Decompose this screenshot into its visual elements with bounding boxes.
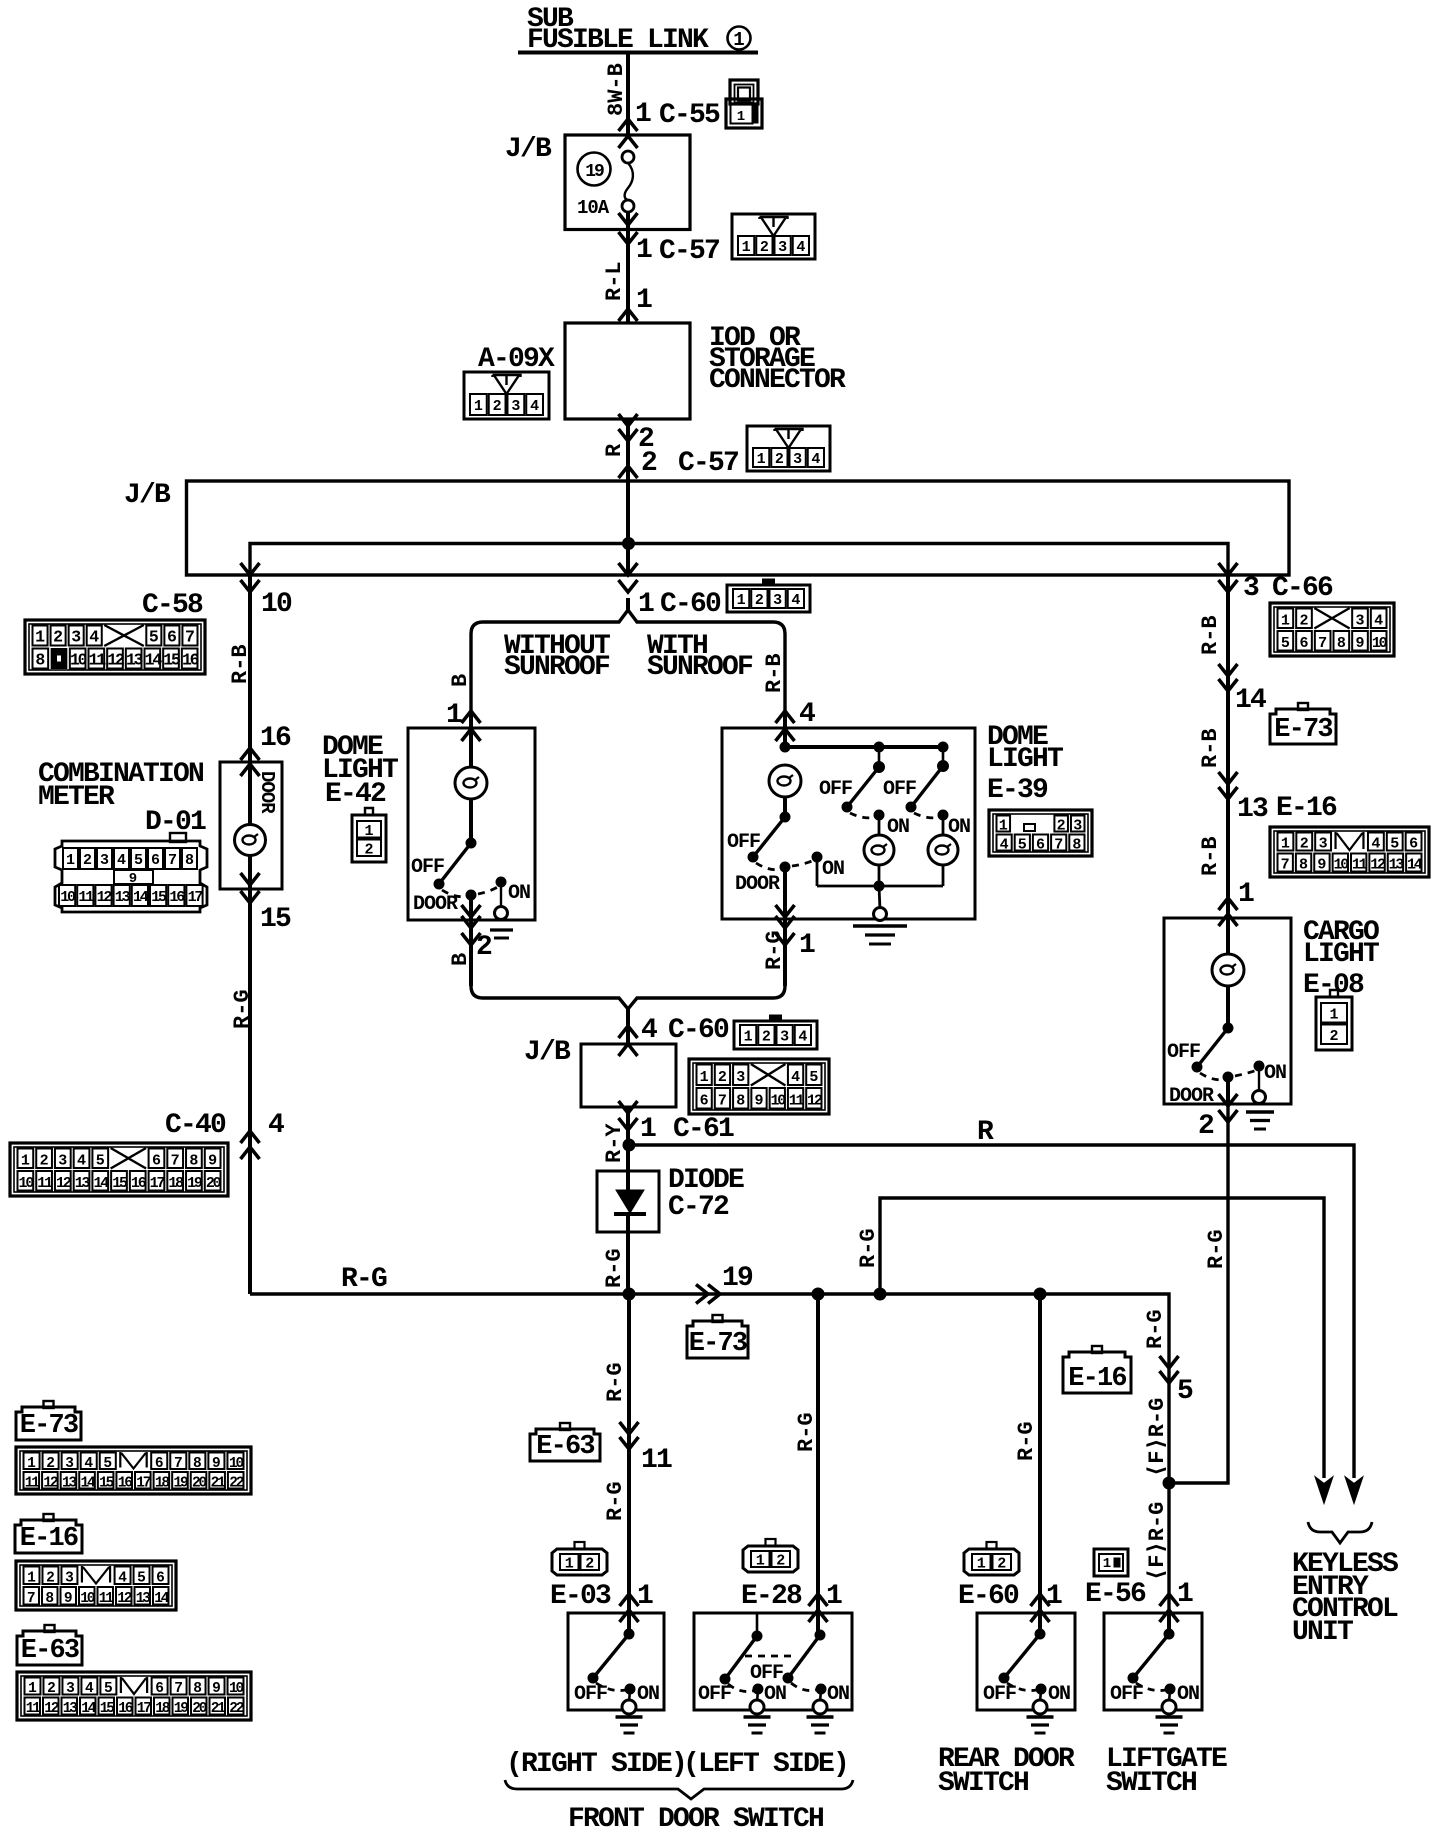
wire 8W-B from fusible link to J/B fuse [626, 54, 630, 135]
svg-text:4: 4 [791, 1069, 800, 1086]
cargo light lamp [1226, 918, 1230, 954]
svg-text:16: 16 [182, 651, 199, 670]
svg-text:2: 2 [47, 1681, 56, 1697]
IOD or storage connector box [619, 309, 638, 321]
svg-text:R: R [977, 1117, 994, 1148]
connector E-73 table [16, 1447, 251, 1494]
J/B internal bus wire [626, 481, 630, 544]
dome light E-39 door wire to pin 1 [783, 867, 787, 920]
svg-text:6: 6 [155, 1456, 164, 1472]
svg-text:C-60: C-60 [660, 589, 721, 620]
connector C-60 icon (lower) [734, 1021, 817, 1049]
svg-text:11: 11 [641, 1445, 672, 1476]
svg-text:8: 8 [193, 1456, 202, 1472]
svg-text:14: 14 [1407, 857, 1423, 874]
svg-text:5: 5 [149, 628, 159, 647]
svg-text:14: 14 [1235, 685, 1266, 716]
svg-text:6: 6 [167, 628, 177, 647]
door lamp in combination meter [248, 762, 252, 824]
front door switch LH E-28 box [694, 1613, 852, 1710]
svg-text:4: 4 [1000, 837, 1009, 854]
svg-text:E-60: E-60 [958, 1581, 1019, 1612]
svg-text:2: 2 [53, 628, 63, 647]
svg-text:7: 7 [1318, 635, 1327, 652]
svg-text:5: 5 [104, 1681, 113, 1697]
wire R-L from J/B fuse to IOD connector [626, 230, 630, 324]
wire R-G rail to door switches [250, 1294, 1169, 1613]
svg-text:6: 6 [700, 1092, 709, 1109]
svg-text:⟨F⟩R-G: ⟨F⟩R-G [1145, 1502, 1170, 1581]
svg-text:C-40: C-40 [165, 1110, 226, 1141]
svg-text:C-55: C-55 [659, 100, 720, 131]
svg-text:1: 1 [744, 1029, 753, 1046]
svg-text:1: 1 [733, 29, 744, 51]
dome light E-42 switch ground [500, 882, 502, 907]
dome light E-39 box [722, 728, 975, 919]
svg-text:1: 1 [977, 1556, 986, 1573]
connector C-60 pin 1 label [619, 580, 638, 592]
svg-text:5: 5 [134, 852, 143, 869]
connector E-03 icon [552, 1549, 607, 1575]
svg-text:1: 1 [27, 1456, 36, 1472]
dome light E-39 lamp 3 [942, 815, 945, 835]
svg-text:ON: ON [637, 1683, 659, 1706]
dome light E-39 switch 2 [874, 762, 885, 773]
svg-text:R-L: R-L [602, 261, 627, 301]
svg-text:LIGHT: LIGHT [987, 744, 1063, 775]
svg-text:13: 13 [115, 889, 131, 906]
connector E-16 pin 13 marks [1219, 772, 1238, 784]
connector C-60 icon (top) [727, 585, 810, 612]
svg-text:3: 3 [736, 1069, 745, 1086]
svg-text:3: 3 [780, 1029, 789, 1046]
svg-text:2: 2 [493, 398, 502, 415]
svg-text:4: 4 [641, 1015, 657, 1046]
svg-text:1: 1 [35, 628, 45, 647]
svg-text:2: 2 [476, 932, 492, 963]
svg-text:R-B: R-B [762, 653, 787, 693]
svg-text:1: 1 [635, 99, 651, 130]
svg-text:13: 13 [1389, 857, 1405, 874]
svg-text:OFF: OFF [1167, 1041, 1200, 1064]
svg-text:E-63: E-63 [536, 1432, 594, 1462]
svg-text:19: 19 [187, 1175, 203, 1192]
svg-text:6: 6 [1409, 836, 1418, 853]
svg-text:5: 5 [96, 1152, 105, 1169]
svg-text:4: 4 [530, 398, 539, 415]
svg-text:1: 1 [364, 823, 373, 840]
connector C-61 icon [689, 1059, 829, 1114]
svg-text:4: 4 [89, 628, 99, 647]
connector E-42 icon [352, 815, 386, 862]
svg-text:E-39: E-39 [987, 775, 1048, 806]
svg-text:12: 12 [44, 1701, 59, 1717]
svg-text:22: 22 [229, 1475, 244, 1491]
svg-text:8: 8 [35, 651, 45, 670]
wire R-B from J/B pin 10 to combination meter [241, 580, 260, 592]
svg-text:18: 18 [168, 1175, 184, 1192]
svg-text:14: 14 [145, 651, 163, 670]
svg-text:1: 1 [636, 235, 652, 266]
svg-text:1: 1 [756, 1553, 765, 1570]
svg-text:5: 5 [1177, 1376, 1193, 1407]
diode C-72 symbol [616, 1190, 644, 1213]
svg-text:12: 12 [43, 1475, 58, 1491]
node junction E-28 branch [812, 1288, 824, 1300]
wire split to dome lights (without/with sunroof) [471, 610, 785, 712]
svg-text:ON: ON [887, 816, 909, 839]
front door switch brace [505, 1780, 853, 1799]
svg-text:6: 6 [152, 1152, 161, 1169]
svg-text:OFF: OFF [411, 856, 444, 879]
svg-text:8: 8 [1337, 635, 1346, 652]
svg-text:R-G: R-G [603, 1362, 628, 1402]
svg-text:2: 2 [83, 852, 92, 869]
svg-text:7: 7 [174, 1456, 183, 1472]
svg-text:OFF: OFF [1110, 1683, 1143, 1706]
svg-text:2: 2 [1300, 836, 1309, 853]
svg-text:8: 8 [185, 852, 194, 869]
svg-text:1: 1 [28, 1681, 37, 1697]
node junction E-60 branch [1034, 1288, 1046, 1300]
svg-text:15: 15 [99, 1475, 114, 1491]
svg-text:15: 15 [163, 651, 181, 670]
svg-text:10: 10 [70, 651, 87, 670]
svg-text:11: 11 [89, 651, 107, 670]
cargo light pin 2 wire [1226, 1077, 1230, 1104]
svg-text:4: 4 [117, 852, 126, 869]
wire R-B from J/B pin 3 to C-66 [1219, 580, 1238, 592]
wire merge from dome lights to C-60 pin 4 [469, 920, 473, 986]
svg-text:7: 7 [1281, 857, 1290, 874]
svg-text:2: 2 [762, 1029, 771, 1046]
svg-text:DOOR: DOOR [735, 873, 780, 896]
svg-text:3: 3 [1355, 612, 1364, 629]
connector E-16 icon (bottom left) [15, 1520, 82, 1553]
svg-text:1: 1 [636, 285, 652, 316]
svg-text:SWITCH: SWITCH [1106, 1768, 1196, 1799]
svg-text:8W-B: 8W-B [604, 63, 629, 116]
svg-text:13: 13 [75, 1175, 91, 1192]
svg-text:17: 17 [136, 1475, 151, 1491]
svg-text:3: 3 [71, 628, 81, 647]
svg-text:11: 11 [78, 889, 94, 906]
svg-text:12: 12 [107, 651, 124, 670]
svg-text:1: 1 [638, 589, 654, 620]
svg-text:3: 3 [65, 1456, 74, 1472]
svg-text:1: 1 [474, 398, 483, 415]
svg-text:3: 3 [1073, 818, 1082, 835]
svg-text:1: 1 [565, 1556, 574, 1573]
combination meter D-01 box [220, 762, 282, 889]
connector A-09X icon [464, 372, 549, 419]
svg-text:19: 19 [173, 1475, 188, 1491]
svg-text:1: 1 [1329, 1006, 1338, 1023]
svg-text:12: 12 [1370, 857, 1386, 874]
svg-text:SUNROOF: SUNROOF [504, 652, 610, 683]
svg-text:4: 4 [85, 1681, 94, 1697]
wire R-Y from J/B to diode [626, 1107, 630, 1171]
svg-text:1: 1 [737, 109, 745, 125]
svg-text:R-B: R-B [228, 644, 253, 684]
svg-text:4: 4 [84, 1456, 93, 1472]
fuse 19 circle label [578, 153, 611, 186]
connector C-55 pin 1 label [619, 119, 638, 131]
svg-text:4: 4 [118, 1570, 127, 1586]
svg-text:5: 5 [809, 1069, 818, 1086]
svg-text:11: 11 [37, 1175, 53, 1192]
svg-text:C-57: C-57 [659, 236, 719, 267]
svg-text:16: 16 [118, 1475, 133, 1491]
dome light E-39 bottom bus [816, 857, 819, 886]
svg-text:2: 2 [755, 592, 764, 609]
svg-text:A-09X: A-09X [478, 344, 555, 375]
svg-text:9: 9 [212, 1681, 221, 1697]
svg-text:6: 6 [155, 1681, 164, 1697]
svg-text:C-66: C-66 [1272, 573, 1333, 604]
connector E-39 icon [989, 810, 1092, 856]
svg-text:(LEFT SIDE): (LEFT SIDE) [683, 1749, 848, 1780]
svg-text:13: 13 [62, 1475, 77, 1491]
svg-text:3: 3 [1243, 573, 1259, 604]
svg-text:OFF: OFF [819, 778, 852, 801]
svg-text:3: 3 [100, 852, 109, 869]
svg-text:8: 8 [189, 1152, 198, 1169]
svg-text:3: 3 [58, 1152, 67, 1169]
svg-text:1: 1 [742, 239, 751, 256]
front door switch RH E-03 [568, 1613, 664, 1710]
svg-text:1: 1 [757, 451, 766, 468]
svg-text:2: 2 [775, 451, 784, 468]
svg-text:R-G: R-G [341, 1264, 387, 1295]
svg-text:10: 10 [229, 1456, 244, 1472]
svg-text:OFF: OFF [750, 1662, 783, 1685]
svg-text:16: 16 [131, 1175, 147, 1192]
svg-text:2: 2 [776, 1553, 785, 1570]
svg-text:10A: 10A [577, 197, 610, 219]
svg-text:1: 1 [637, 1581, 653, 1612]
connector C-57 icon (lower) [747, 426, 830, 471]
svg-text:19: 19 [174, 1701, 189, 1717]
node junction diode/E-03 [623, 1288, 635, 1300]
svg-text:10: 10 [19, 1175, 35, 1192]
svg-text:1: 1 [1177, 1579, 1193, 1610]
svg-text:R-G: R-G [1014, 1421, 1039, 1461]
svg-text:8: 8 [736, 1092, 745, 1109]
svg-text:2: 2 [997, 1556, 1006, 1573]
svg-text:12: 12 [56, 1175, 72, 1192]
svg-text:1: 1 [1281, 836, 1290, 853]
svg-text:10: 10 [261, 589, 292, 620]
node R rail junction at C-61 [623, 1139, 635, 1151]
svg-text:R-G: R-G [603, 1481, 628, 1521]
dome light E-39 ground [879, 886, 880, 910]
svg-text:5: 5 [103, 1456, 112, 1472]
connector E-63 icon (bottom left) [17, 1631, 82, 1665]
svg-text:E-73: E-73 [689, 1329, 747, 1359]
svg-text:1: 1 [737, 592, 746, 609]
svg-text:FRONT DOOR SWITCH: FRONT DOOR SWITCH [568, 1804, 823, 1835]
svg-text:13: 13 [63, 1701, 78, 1717]
svg-text:J/B: J/B [505, 134, 552, 165]
dome light E-39 switch 3 [938, 761, 949, 772]
front door switch LH E-28 switch B [816, 1613, 820, 1635]
svg-text:C-60: C-60 [668, 1015, 729, 1046]
svg-text:1: 1 [27, 1570, 36, 1586]
svg-text:1: 1 [999, 818, 1008, 835]
connector E-16 icon (center) [1063, 1352, 1131, 1393]
svg-text:4: 4 [1371, 836, 1380, 853]
svg-text:4: 4 [77, 1152, 86, 1169]
svg-text:1: 1 [1103, 1556, 1111, 1572]
svg-text:17: 17 [137, 1701, 152, 1717]
svg-text:9: 9 [212, 1456, 221, 1472]
svg-text:SUNROOF: SUNROOF [647, 652, 753, 683]
svg-text:1: 1 [21, 1152, 30, 1169]
dome light E-39 lamp 2 [878, 815, 881, 835]
svg-text:B: B [448, 953, 473, 966]
svg-text:2: 2 [46, 1456, 55, 1472]
svg-text:4: 4 [811, 451, 820, 468]
connector E-63 icon (mid) [530, 1429, 600, 1461]
svg-text:17: 17 [150, 1175, 165, 1192]
svg-text:20: 20 [192, 1475, 207, 1491]
svg-text:DOOR: DOOR [1169, 1085, 1214, 1108]
connector E-60 icon [964, 1549, 1019, 1575]
svg-text:10: 10 [1372, 635, 1388, 652]
svg-text:19: 19 [722, 1263, 753, 1294]
svg-text:E-16: E-16 [1068, 1364, 1126, 1394]
svg-text:⟨F⟩R-G: ⟨F⟩R-G [1145, 1398, 1170, 1477]
svg-text:2: 2 [364, 841, 373, 858]
dome light E-39 switch 1 (main) [780, 812, 790, 822]
svg-text:C-72: C-72 [668, 1192, 729, 1223]
svg-text:E-03: E-03 [550, 1581, 611, 1612]
connector E-56 icon [1094, 1549, 1128, 1576]
wire R to keyless entry control unit [629, 1145, 1354, 1478]
svg-text:2: 2 [46, 1570, 55, 1586]
svg-text:DOOR: DOOR [413, 893, 458, 916]
connector C-66 icon [1270, 603, 1394, 656]
svg-text:4: 4 [796, 239, 805, 256]
svg-text:7: 7 [168, 852, 177, 869]
svg-text:LIGHT: LIGHT [1303, 939, 1379, 970]
svg-text:3: 3 [773, 592, 782, 609]
svg-text:E-16: E-16 [1276, 793, 1337, 824]
svg-text:E-63: E-63 [21, 1636, 79, 1666]
svg-text:E-73: E-73 [1274, 715, 1332, 745]
svg-text:ON: ON [764, 1683, 786, 1706]
svg-text:2: 2 [1198, 1111, 1214, 1142]
wire R-G to front door switch RH E-03 [627, 1294, 631, 1613]
svg-text:DOOR: DOOR [256, 771, 278, 814]
svg-text:1: 1 [826, 1581, 842, 1612]
svg-text:2: 2 [718, 1069, 727, 1086]
svg-text:1: 1 [640, 1114, 656, 1145]
svg-text:5: 5 [1018, 837, 1027, 854]
svg-text:2: 2 [1057, 818, 1066, 835]
wire R from IOD connector to J/B [626, 419, 630, 480]
svg-text:9: 9 [754, 1092, 763, 1109]
svg-text:OFF: OFF [983, 1683, 1016, 1706]
svg-text:5: 5 [1281, 635, 1290, 652]
svg-text:7: 7 [171, 1152, 180, 1169]
svg-text:9: 9 [64, 1591, 73, 1607]
dome light E-42 box [408, 728, 535, 920]
front door switch LH E-28 grounds [744, 1715, 771, 1718]
svg-text:8: 8 [193, 1681, 202, 1697]
wire R-G to rear door switch E-60 [1038, 1292, 1042, 1613]
svg-text:(RIGHT SIDE): (RIGHT SIDE) [506, 1749, 686, 1780]
svg-text:10: 10 [770, 1092, 786, 1109]
svg-text:2: 2 [641, 448, 657, 479]
connector E-16 icon (right) [1270, 827, 1429, 877]
svg-text:1: 1 [700, 1069, 709, 1086]
svg-text:7: 7 [718, 1092, 727, 1109]
svg-text:9: 9 [1355, 635, 1364, 652]
svg-text:R: R [602, 443, 627, 457]
svg-text:ON: ON [827, 1683, 849, 1706]
svg-text:11: 11 [789, 1092, 805, 1109]
wire R-G to front door switch LH E-28 [816, 1294, 820, 1613]
svg-text:1: 1 [1281, 612, 1290, 629]
svg-text:OFF: OFF [574, 1683, 607, 1706]
svg-text:20: 20 [192, 1701, 207, 1717]
svg-text:E-42: E-42 [325, 779, 386, 810]
svg-text:5: 5 [137, 1570, 146, 1586]
svg-text:ON: ON [1177, 1683, 1199, 1706]
svg-text:ON: ON [948, 816, 970, 839]
svg-text:4: 4 [268, 1110, 284, 1141]
dome light E-39 internal bus [783, 728, 787, 747]
svg-text:OFF: OFF [698, 1683, 731, 1706]
svg-text:10: 10 [229, 1681, 244, 1697]
svg-text:4: 4 [791, 592, 800, 609]
wire R-G from diode to rail [626, 1232, 630, 1294]
keyless entry control unit label [1308, 1522, 1372, 1543]
svg-text:CONNECTOR: CONNECTOR [709, 365, 846, 396]
svg-text:3: 3 [511, 398, 520, 415]
svg-text:7: 7 [174, 1681, 183, 1697]
svg-text:J/B: J/B [124, 480, 171, 511]
svg-text:2: 2 [1329, 1028, 1338, 1045]
svg-text:15: 15 [151, 889, 167, 906]
svg-text:14: 14 [93, 1175, 109, 1192]
svg-text:4: 4 [798, 1029, 807, 1046]
svg-text:ON: ON [1048, 1683, 1070, 1706]
svg-text:13: 13 [136, 1591, 151, 1607]
wire R-G up-over to liftgate branch [880, 1198, 1324, 1478]
connector E-28 icon [743, 1546, 798, 1572]
svg-text:5: 5 [1390, 836, 1399, 853]
svg-text:8: 8 [45, 1591, 54, 1607]
svg-text:15: 15 [100, 1701, 115, 1717]
svg-text:1: 1 [799, 930, 815, 961]
svg-text:R-G: R-G [602, 1248, 627, 1288]
dome light E-42 lamp [469, 728, 473, 767]
connector C-58 icon [25, 620, 205, 674]
svg-text:11: 11 [1352, 857, 1368, 874]
fuse element 10A [622, 151, 634, 163]
svg-text:R-G: R-G [230, 989, 255, 1029]
connector E-73 icon (right) [1270, 709, 1336, 744]
svg-text:1: 1 [446, 700, 462, 731]
svg-text:R-G: R-G [1204, 1229, 1229, 1269]
svg-text:C-58: C-58 [142, 590, 203, 621]
svg-text:R-G: R-G [794, 1412, 819, 1452]
dome light E-42 switch [466, 838, 476, 848]
svg-text:1: 1 [1046, 1581, 1062, 1612]
